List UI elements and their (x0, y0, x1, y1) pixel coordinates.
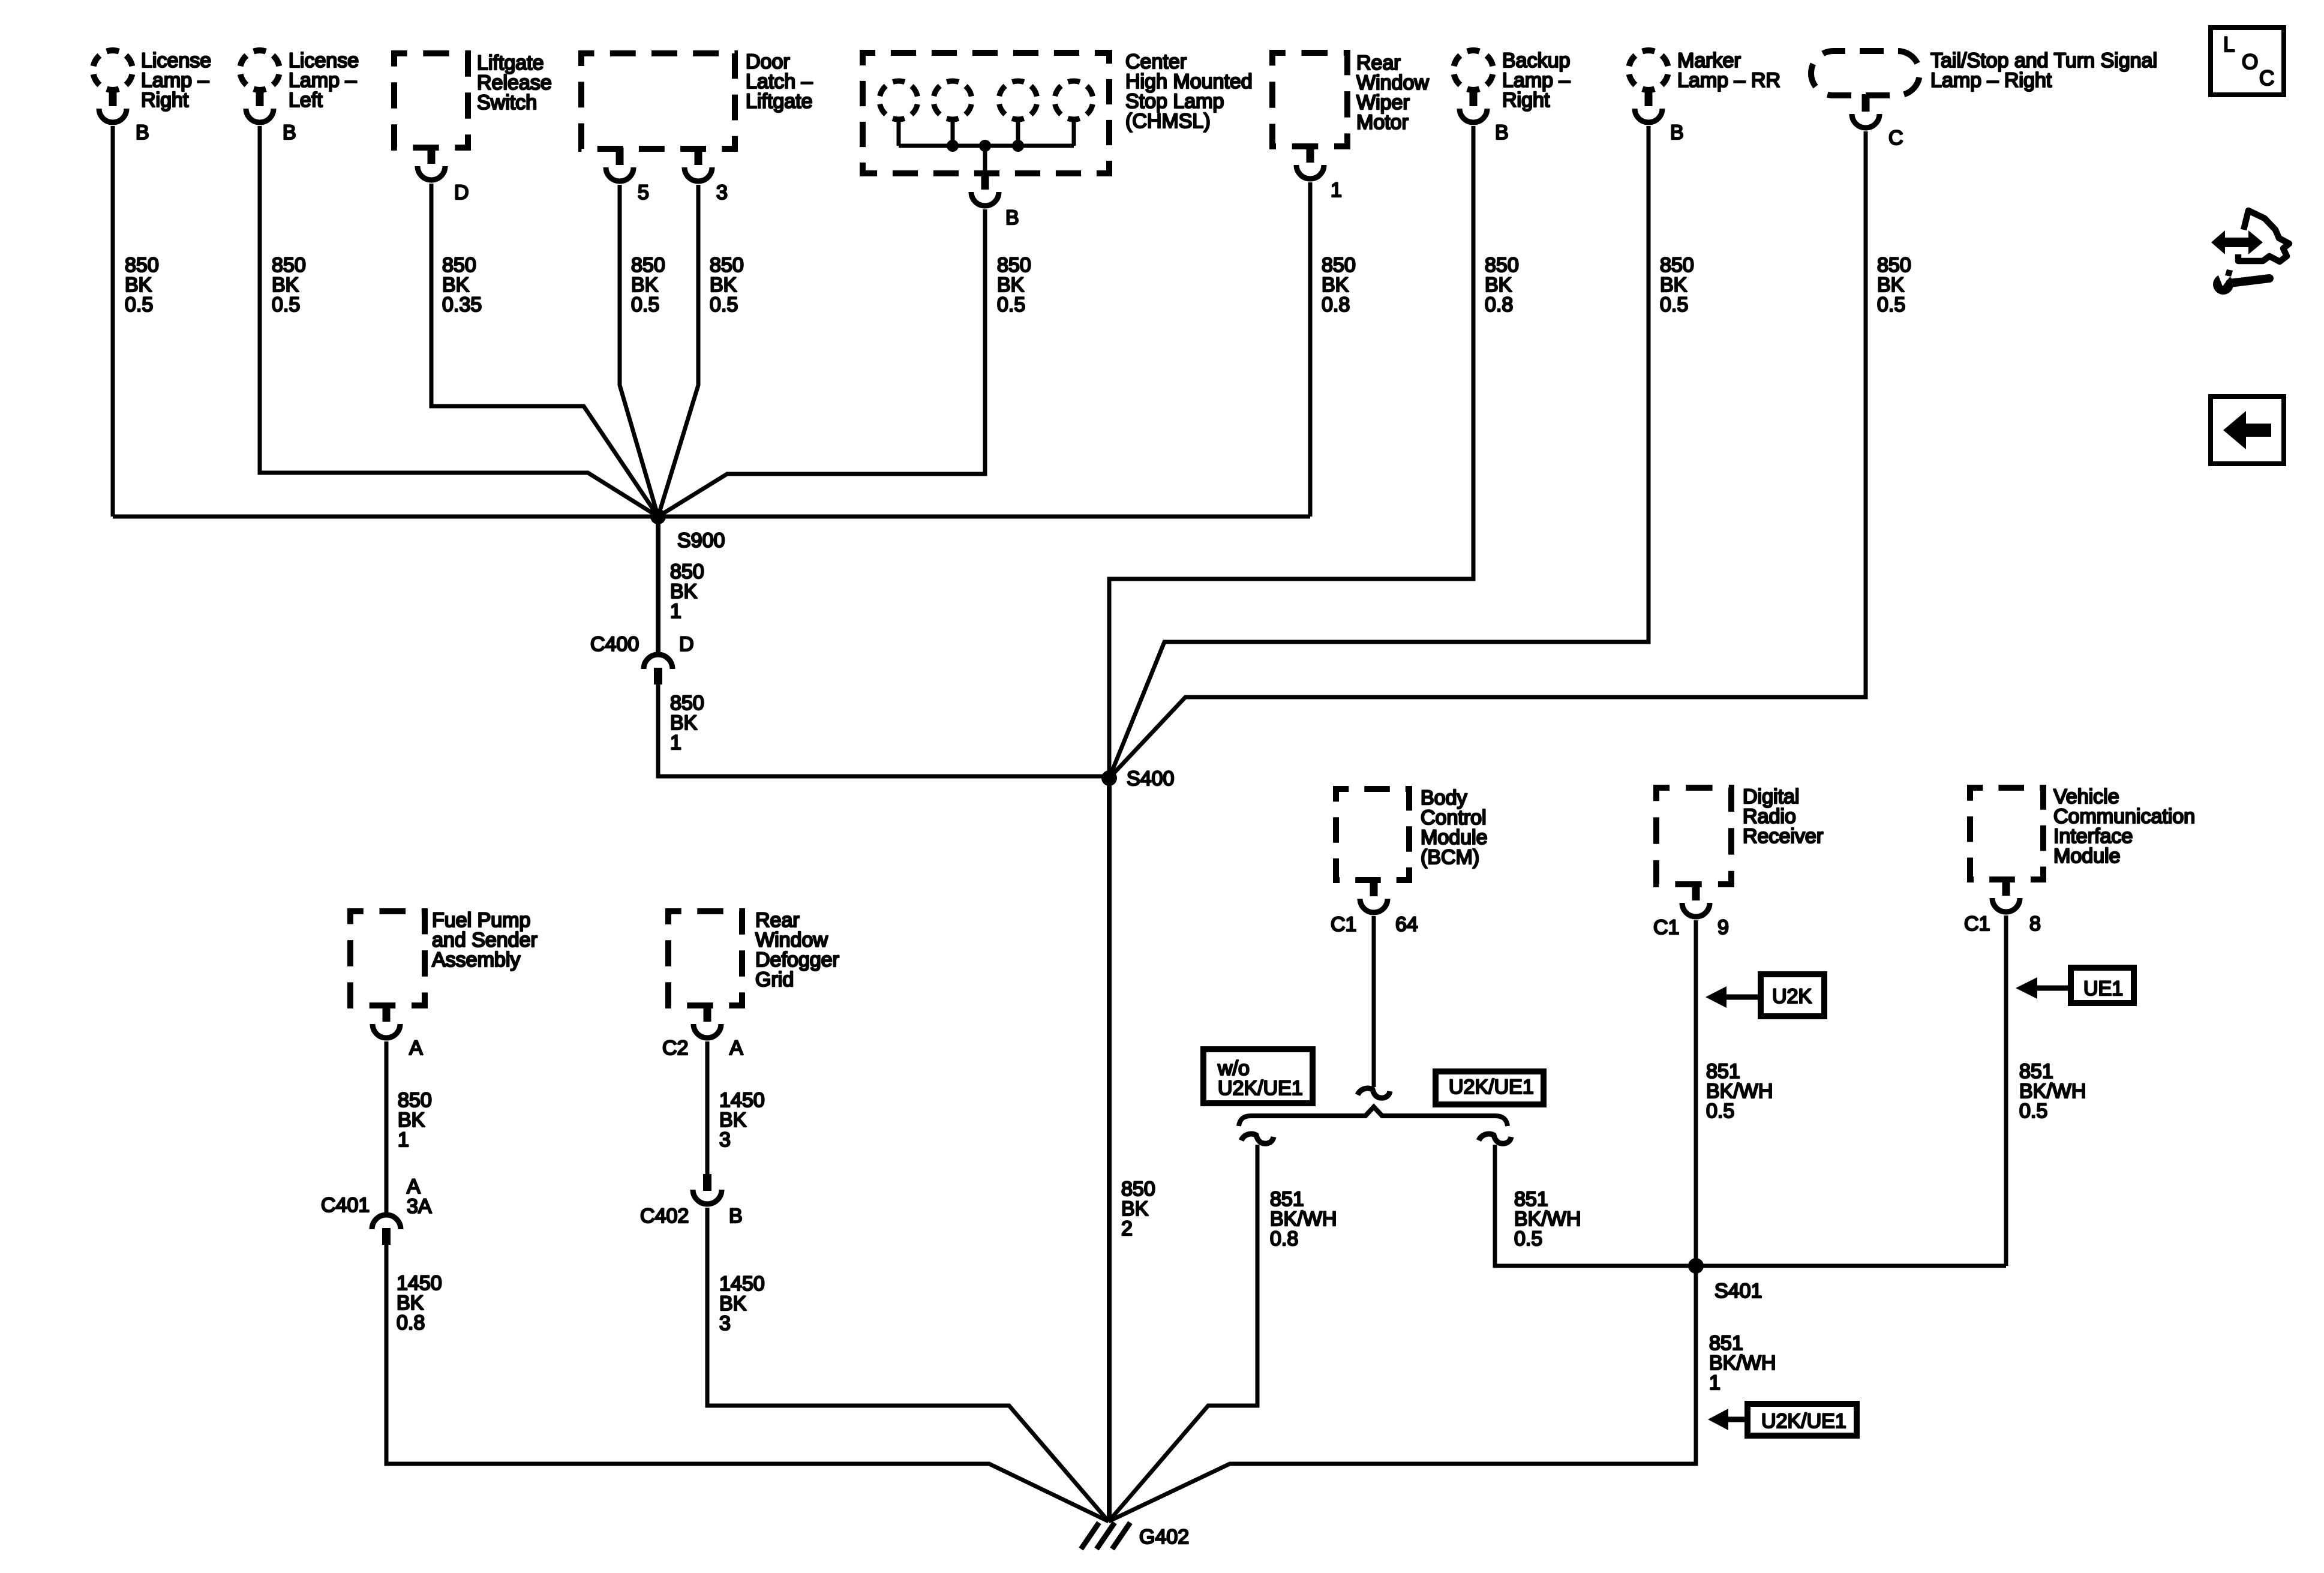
pin A (Fuel Pump) (409, 1037, 423, 1059)
break squiggle at BCM wire end (1358, 1088, 1390, 1098)
pin D (C400) (679, 633, 694, 656)
wire label 851 BK/WH 0.5 (1514, 1188, 1581, 1250)
pin B (CHMSL) (1005, 206, 1019, 229)
wire label 850 BK 0.8 (1485, 254, 1519, 316)
lamp: License Lamp - Left (dashed circle) (240, 50, 280, 122)
wire 850 BK 1 from Fuel Pump to C401 (385, 1041, 389, 1214)
pin B (Marker Lamp - RR) (1670, 121, 1684, 144)
connector C400 (644, 655, 672, 685)
svg-text:1: 1 (1331, 179, 1342, 202)
component: Door Latch - Liftgate (dashed box) (581, 53, 735, 181)
label C401 (321, 1194, 370, 1217)
splice S401 (1688, 1258, 1762, 1302)
wire: main horizontal bus into S900 (113, 515, 1310, 519)
wire label 1450 BK 3 (719, 1272, 765, 1335)
label: Rear Window Defogger Grid (755, 909, 839, 991)
svg-text:C: C (2259, 67, 2274, 90)
wire 851 BK/WH 1 from S401 to G402 (1109, 1266, 1696, 1521)
lamp: License Lamp - Right (dashed circle) (93, 50, 133, 122)
label: Rear Window Wiper Motor (1356, 52, 1429, 134)
wire label 850 BK 0.35 (442, 254, 482, 316)
svg-text:C1: C1 (1331, 913, 1356, 936)
svg-text:O: O (2242, 50, 2258, 74)
component: Center High Mounted Stop Lamp CHMSL (dashed box with four bulbs) (863, 53, 1109, 206)
wire 850 BK 0.5 from Tail/Stop Lamp to S400 (1109, 131, 1866, 778)
svg-text:9: 9 (1718, 916, 1729, 939)
wire label 850 BK 0.5 (125, 254, 159, 316)
pin B (License Lamp - Left) (283, 121, 296, 144)
svg-text:A: A (729, 1037, 743, 1059)
svg-text:B: B (1495, 121, 1509, 144)
svg-text:64: 64 (1395, 913, 1418, 936)
icon: wiring repair reference (arrows and wrench) (2211, 211, 2289, 295)
pin B (License Lamp - Right) (136, 121, 149, 144)
pin 3 (Door Latch) (716, 181, 728, 204)
label: Backup Lamp - Right (1502, 49, 1570, 112)
svg-text:C401: C401 (321, 1194, 370, 1217)
wire 850 BK 0.35 from Liftgate Release Switch to S900 (431, 184, 658, 517)
svg-text:S401: S401 (1715, 1280, 1762, 1302)
wire 850 BK 0.5 from License Lamp - Right to S900 (111, 126, 115, 517)
wire label 1450 BK 3 (719, 1089, 765, 1151)
wire 850 BK 0.5 from CHMSL to S900 (658, 209, 985, 517)
svg-text:3: 3 (716, 181, 728, 204)
label: Marker Lamp - RR (1677, 49, 1780, 92)
wire 850 BK 2 from S400 to G402 (1107, 778, 1112, 1521)
wire label 850 BK 0.5 (631, 254, 665, 316)
svg-text:D: D (679, 633, 694, 656)
splice S900 (650, 509, 725, 552)
label: Liftgate Release Switch (477, 52, 552, 114)
wire 850 BK 0.5 from License Lamp - Left to S900 (260, 126, 658, 517)
svg-text:G402: G402 (1139, 1526, 1189, 1548)
component: Liftgate Release Switch (dashed box) (394, 53, 468, 180)
svg-text:U2K/UE1: U2K/UE1 (1761, 1410, 1846, 1433)
wire 850 BK 0.5 from Door Latch pin 5 to S900 (620, 185, 658, 517)
svg-text:U2K: U2K (1772, 985, 1812, 1008)
icon: LOC reference box (2211, 28, 2284, 95)
wire 850 BK 0.5 from Door Latch pin 3 to S900 (658, 185, 698, 517)
connector C402 (693, 1174, 722, 1204)
wire 851 BK/WH 0.5 from Digital Radio Receiver to S401 (1694, 920, 1698, 1266)
wire 1450 BK 0.8 from C401 to G402 (386, 1245, 1109, 1521)
component: Digital Radio Receiver (dashed box) (1656, 788, 1731, 917)
svg-text:U2K/UE1: U2K/UE1 (1449, 1076, 1534, 1098)
label: Fuel Pump and Sender Assembly (432, 909, 538, 971)
label: Door Latch - Liftgate (746, 50, 813, 113)
svg-text:A: A (409, 1037, 423, 1059)
label: BCM (1421, 786, 1488, 869)
wire label 850 BK 0.5 (1877, 254, 1911, 316)
icon: back arrow box (2211, 397, 2284, 464)
component: Vehicle Communication Interface Module (dashed box) (1970, 788, 2043, 912)
wire 851 BK/WH 0.8 left branch to G402 (1109, 1145, 1257, 1521)
wire 1450 BK 3 from C402 to G402 (707, 1208, 1109, 1521)
svg-text:C2: C2 (662, 1037, 688, 1059)
label: Vehicle Communication Interface Module (2053, 785, 2195, 867)
svg-text:S900: S900 (677, 529, 725, 552)
wire 850 BK 0.5 from Marker Lamp to S400 (1109, 126, 1649, 778)
svg-text:B: B (1670, 121, 1684, 144)
pin C1 (BCM) (1331, 913, 1356, 936)
pin B (C402) (729, 1205, 743, 1227)
wire label 850 BK 1 (670, 692, 704, 754)
wire 850 BK 0.8 from Backup Lamp to S400 (1109, 126, 1473, 778)
wire 850 BK 1 from C400 to S400 (658, 685, 1109, 776)
svg-text:C402: C402 (640, 1205, 689, 1227)
svg-text:5: 5 (638, 181, 649, 204)
pin B (Backup Lamp - Right) (1495, 121, 1509, 144)
pin 1 (Rear Window Wiper Motor) (1331, 179, 1342, 202)
label C402 (640, 1205, 689, 1227)
svg-text:C1: C1 (1653, 916, 1679, 939)
svg-text:8: 8 (2029, 912, 2041, 935)
component: Fuel Pump and Sender Assembly (dashed box) (350, 911, 425, 1038)
wire 1450 BK 3 from Defogger to C402 (705, 1041, 710, 1174)
wire label 850 BK 1 (398, 1089, 432, 1151)
pin A (Defogger) (729, 1037, 743, 1059)
wire label 850 BK 2 (1121, 1178, 1155, 1240)
tag U2K with arrow (1706, 974, 1824, 1016)
wire 850 BK 1 from S900 to C400 (656, 517, 660, 653)
label C400 (590, 633, 639, 656)
label: License Lamp - Left (289, 49, 359, 112)
label: CHMSL (1125, 50, 1253, 133)
break squiggle at left branch top (1241, 1134, 1274, 1143)
tag box: w/o U2K/UE1 (1203, 1049, 1313, 1103)
pin C1 (VCIM) (1964, 912, 1990, 935)
tag UE1 with arrow (2016, 968, 2134, 1003)
svg-text:L: L (2223, 33, 2235, 56)
ground G402 (1081, 1523, 1189, 1549)
wire label 850 BK 1 (670, 560, 704, 623)
splice S400 (1101, 767, 1174, 790)
component: Rear Window Wiper Motor (dashed box) (1272, 53, 1347, 179)
wire 851 BK/WH 0.5 right branch to S401 (1495, 1145, 2006, 1266)
component: Rear Window Defogger Grid (dashed box) (668, 911, 742, 1038)
svg-text:C400: C400 (590, 633, 639, 656)
wire label 850 BK 0.5 (997, 254, 1031, 316)
svg-text:C1: C1 (1964, 912, 1990, 935)
pin 64 (BCM) (1395, 913, 1418, 936)
wire label 1450 BK 0.8 (397, 1272, 442, 1334)
svg-text:B: B (1005, 206, 1019, 229)
wire label 850 BK 0.5 (710, 254, 744, 316)
pins A / 3A (C401) (407, 1175, 432, 1218)
wire label 851 BK/WH 1 (1709, 1332, 1776, 1394)
tag box: U2K/UE1 (1436, 1071, 1544, 1104)
svg-text:C: C (1888, 127, 1903, 149)
svg-text:B: B (729, 1205, 743, 1227)
svg-text:S400: S400 (1127, 767, 1174, 790)
label: Tail/Stop and Turn Signal Lamp - Right (1930, 49, 2157, 92)
tag U2K/UE1 with arrow (bottom) (1708, 1404, 1857, 1436)
label: Digital Radio Receiver (1743, 785, 1823, 848)
break squiggle at right branch top (1479, 1134, 1511, 1143)
svg-text:B: B (136, 121, 149, 144)
connector C401 (372, 1215, 401, 1245)
component: Body Control Module BCM (dashed box) (1336, 789, 1409, 912)
pin C1 (Digital Radio Receiver) (1653, 916, 1679, 939)
pin 9 (Digital Radio Receiver) (1718, 916, 1729, 939)
wire from BCM C1-64 down to option brace (1372, 916, 1376, 1087)
wire label 851 BK/WH 0.5 (2019, 1060, 2086, 1122)
lamp: Backup Lamp - Right (dashed circle) (1454, 50, 1493, 122)
pin D (Liftgate Release Switch) (454, 181, 469, 204)
wire label 851 BK/WH 0.8 (1270, 1188, 1337, 1250)
label: License Lamp - Right (141, 49, 211, 112)
option brace (curly brace over branches) (1239, 1107, 1508, 1126)
lamp: Marker Lamp - RR (dashed circle) (1629, 50, 1668, 122)
lamp: Tail/Stop and Turn Signal Lamp - Right (dashed capsule) (1811, 51, 1920, 128)
wire 851 BK/WH 0.5 from VCIM to S401 bus (2004, 915, 2008, 1266)
wire label 850 BK 0.5 (1660, 254, 1694, 316)
pin 8 (VCIM) (2029, 912, 2041, 935)
svg-text:D: D (454, 181, 469, 204)
pin 5 (Door Latch) (638, 181, 649, 204)
wire label 850 BK 0.8 (1322, 254, 1356, 316)
wire label 851 BK/WH 0.5 (1706, 1060, 1773, 1122)
pin C2 (Defogger) (662, 1037, 688, 1059)
pin C (Tail/Stop Lamp) (1888, 127, 1903, 149)
svg-text:UE1: UE1 (2083, 977, 2123, 1000)
svg-text:B: B (283, 121, 296, 144)
wire 850 BK 0.8 from Rear Window Wiper Motor to S900 (1308, 182, 1313, 517)
wire label 850 BK 0.5 (272, 254, 306, 316)
